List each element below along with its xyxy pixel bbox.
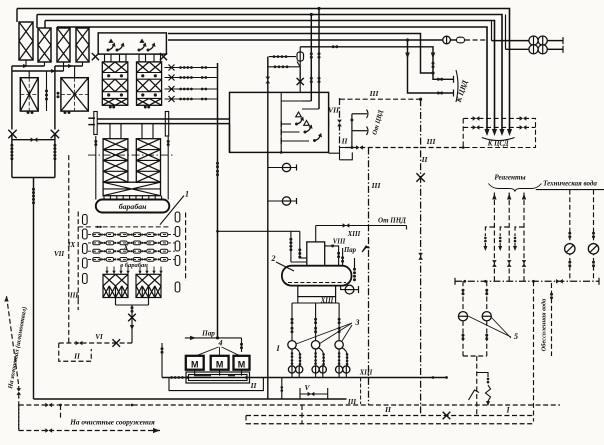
wire left down leg: [11, 66, 13, 130]
wire second down leg: [54, 66, 56, 130]
right dashed vertical internals: [185, 213, 187, 282]
Ot CVD stub upper: [352, 113, 367, 115]
deaerator head column: [307, 242, 325, 266]
wire deaerator feed vertical 2: [290, 231, 292, 252]
svg-text:М: М: [216, 360, 224, 370]
Ot CVD riser: [351, 114, 353, 148]
hook feed stubs: [281, 123, 291, 125]
tech water dashed lines with pumps: [569, 190, 571, 282]
junction on box bottom: [462, 146, 465, 149]
wire after circles row2: [547, 48, 563, 50]
phosphate dosing pumps group: [462, 281, 464, 311]
svg-text:II: II: [73, 352, 81, 361]
wire deaerator feed vertical 1: [299, 231, 301, 250]
economizer bottom wide row: [103, 182, 160, 196]
dashed line to K CSD box: [345, 147, 463, 149]
drain box right side with dots: [54, 134, 56, 178]
X valve bottom: [443, 412, 451, 420]
line III dash-dot long vertical: [368, 148, 370, 406]
pump suction with dots: [338, 303, 340, 341]
pointer 1 line: [160, 196, 184, 225]
filter outlet U pipes: [195, 370, 242, 376]
wire cross link with bowtie: [12, 139, 55, 141]
spray nozzles in left box: [108, 46, 114, 51]
deaerator tank 2: [282, 266, 352, 286]
node header junctions: [317, 7, 320, 10]
X valve on riser x300: [297, 78, 304, 85]
dashed line III upper horizontal: [340, 98, 421, 100]
arrow header drops into K CSD box: [484, 129, 489, 136]
tank right drain with zigzag dots: [354, 258, 356, 268]
spray hooks in center box: [297, 120, 303, 125]
svg-text:К ЦСД: К ЦСД: [487, 141, 509, 148]
boiler centerline dash-dot: [88, 154, 175, 156]
X valve on line II right: [416, 173, 424, 181]
riser x311 from header: [310, 15, 312, 102]
line VI with valves: [59, 342, 132, 344]
dashed links in internals: [78, 226, 92, 228]
wire panel connectors lower: [12, 70, 64, 72]
svg-text:На очистные сооружения: На очистные сооружения: [69, 418, 155, 427]
svg-text:Пар: Пар: [343, 247, 357, 254]
svg-text:III: III: [369, 89, 380, 98]
tank bottom compartment: [298, 286, 336, 297]
bottom solid collector: [34, 398, 347, 400]
K CSD inner dashed line: [463, 126, 535, 128]
wire header left risers: [16, 9, 18, 23]
drain down line with dots: [33, 178, 35, 400]
flow orifice circle: [443, 36, 451, 44]
valve dots on K CVD branches: [437, 78, 440, 81]
bowtie on line II right lower: [418, 253, 423, 260]
long center vertical x268 through box: [267, 92, 269, 399]
attemperator center box: [230, 92, 329, 152]
wire line VI to K CVD lower: [168, 40, 454, 93]
drop with dots to blowdown line: [281, 378, 283, 400]
line II dash-dot vertical: [339, 98, 341, 148]
wire feed line to orifice: [408, 39, 444, 41]
feed pump circle: [288, 341, 296, 349]
economizer lower column 1: [103, 139, 128, 183]
booster pump pair: [312, 366, 319, 373]
drum riser ticks: [103, 196, 105, 200]
bottom dashed line II: [246, 415, 534, 417]
lower loop line: [169, 378, 263, 391]
svg-text:III: III: [69, 292, 78, 300]
water wall panel 3: [57, 28, 70, 62]
brace K CSD: [482, 138, 515, 141]
bottom junction dot: [280, 151, 283, 154]
steam line with arrow: [185, 337, 242, 339]
svg-text:3: 3: [355, 318, 360, 327]
branch to deaerator feed: [218, 230, 300, 232]
reagent branch hook: [500, 227, 509, 236]
bottom dashed collector 1: [19, 404, 560, 406]
svg-text:X: X: [122, 243, 129, 252]
reagent branch hook: [515, 227, 524, 236]
svg-text:III: III: [371, 181, 382, 190]
dots between capsules rows: [101, 234, 103, 236]
side downcomer left: [95, 136, 97, 200]
feed pump circle: [311, 341, 319, 349]
collector dots: [216, 162, 219, 165]
svg-text:II: II: [250, 381, 258, 390]
wire pipe drop to spray box bottom: [229, 124, 231, 153]
down arrows to cyclones: [106, 267, 108, 274]
turbine circles row 1: [529, 36, 538, 45]
svg-text:III: III: [426, 137, 437, 146]
pump suction with dots: [291, 303, 293, 341]
line II dash-dot vertical right: [420, 99, 422, 415]
water wall panel 2: [38, 28, 51, 62]
row connector dashed lines: [88, 234, 175, 236]
inner vertical left: [280, 92, 282, 152]
Ot CVD stub lower: [352, 130, 367, 132]
wire restrictor stub upper: [268, 167, 297, 169]
steam inlet Par vertical: [342, 248, 344, 266]
bowties in K CSD box: [473, 116, 480, 121]
drain rows upper with dots and pot: [269, 56, 296, 58]
wire right panel connectors: [55, 65, 83, 67]
svg-text:5: 5: [514, 332, 518, 341]
svg-text:М: М: [191, 360, 199, 370]
capsule rows: [93, 233, 101, 237]
pump suction with dots: [315, 303, 317, 341]
right drop with X valve: [299, 67, 301, 79]
nested dashed corners bottom right: [245, 416, 247, 424]
discharge collector line: [162, 377, 447, 379]
wire steam header line 3: [45, 21, 495, 132]
wire to HP turbine row 2: [506, 48, 530, 50]
pump discharge branches: [338, 349, 340, 366]
reagent dashed feed lines: [493, 193, 495, 282]
riser x319 from header: [318, 9, 320, 110]
bowtie on right collector: [556, 279, 563, 284]
feed water pipe double line: [88, 117, 95, 119]
capsule column left: [83, 215, 88, 225]
svg-text:барабан: барабан: [119, 202, 147, 211]
drain funnel flag: [469, 390, 480, 400]
collector vertical x217: [217, 63, 219, 338]
feed pipe flange 2: [165, 112, 168, 137]
restrictor circle upper: [282, 163, 290, 171]
svg-text:II: II: [421, 155, 429, 164]
economizer lower column 2: [136, 139, 160, 183]
svg-text:II: II: [384, 405, 392, 414]
overflow pump: [345, 285, 354, 294]
X valve at right box corner: [160, 53, 167, 60]
svg-text:VIII: VIII: [333, 239, 346, 246]
air heater block right: [61, 78, 88, 111]
svg-text:4: 4: [218, 339, 223, 348]
valve dots between heaters: [46, 71, 48, 111]
svg-text:IX: IX: [67, 241, 76, 249]
sample flag: [362, 246, 370, 252]
dots under heater blocks: [27, 111, 30, 114]
capsule column right: [175, 212, 180, 222]
booster pump pair: [288, 366, 295, 373]
tube stubs top: [105, 54, 112, 62]
drain rows with dots to collector: [165, 67, 218, 69]
svg-text:Техническая вода: Техническая вода: [543, 180, 597, 188]
side downcomer right: [167, 136, 169, 200]
pump discharge branches: [291, 349, 293, 366]
stub ticks on inner vertical: [280, 121, 282, 127]
riser dots: [310, 52, 313, 55]
feed pipe flange 1: [94, 112, 97, 135]
drain tray double rect: [186, 372, 250, 383]
dots under superheater: [109, 106, 112, 109]
heater top feeds: [28, 71, 30, 78]
zolootval dashed line with valve: [18, 386, 20, 431]
svg-text:XIII: XIII: [359, 370, 373, 377]
svg-text:VI: VI: [95, 333, 103, 341]
underline tech voda: [536, 189, 604, 191]
wire attemperator line to riser x433: [300, 47, 433, 73]
wire after circles row1: [547, 40, 563, 42]
X valve at left box corner: [92, 53, 99, 60]
turbine circles row 2: [529, 45, 538, 54]
bowtie on II: [337, 120, 342, 127]
water wall panel 4: [76, 28, 89, 62]
tank overflow to pump circle: [341, 286, 345, 290]
svg-text:Пар: Пар: [201, 330, 215, 338]
branch to drain funnel: [477, 373, 488, 378]
bottom dashed return: [246, 423, 534, 425]
joined suction: [463, 355, 487, 357]
left drop with bowtie valve: [267, 57, 269, 93]
vertical dashes bottom left: [18, 405, 20, 431]
bottom dashed collector 2: [19, 430, 160, 432]
M filter box 1: [186, 356, 204, 370]
slant connector: [297, 62, 300, 67]
svg-text:VII: VII: [54, 250, 64, 258]
demin water dashed vertical 1: [533, 281, 535, 421]
bracket K CVD: [456, 70, 458, 102]
water wall panel 1: [19, 22, 33, 60]
wire steam header line 4: [57, 27, 487, 131]
orifice capsule: [457, 37, 465, 43]
M filter box 3: [234, 356, 250, 370]
steam line riser into box x300: [299, 47, 301, 93]
superheater upper column 1: [102, 62, 128, 105]
svg-text:в барабан: в барабан: [120, 262, 148, 269]
wire steam header line 2: [37, 15, 502, 132]
left inlet with dots: [161, 343, 163, 378]
small box at line II bottom: [329, 148, 355, 160]
blowoff X valve right: [51, 130, 59, 138]
brace Reagenty: [488, 184, 541, 192]
blowoff X valve left: [8, 130, 16, 138]
wire to HP turbine row 1: [492, 40, 530, 42]
svg-text:Обессоленная вода: Обессоленная вода: [541, 298, 548, 351]
svg-text:1: 1: [185, 190, 189, 199]
bowtie on dashed line: [356, 145, 363, 150]
svg-text:От ПНД: От ПНД: [378, 217, 406, 225]
wire panel connectors upper: [12, 65, 45, 67]
K CSD dashed box: [463, 118, 535, 147]
cyclone left box: [103, 274, 128, 297]
head right outlet: [325, 246, 339, 266]
drum: [96, 200, 170, 213]
line Ot PND with bowtie: [316, 225, 407, 227]
pump suction headers: [298, 297, 336, 303]
feed pump circle: [335, 341, 343, 349]
wire dashed to header: [465, 39, 487, 41]
II drain box dashed: [59, 343, 92, 361]
drain row lower with dots: [268, 66, 300, 68]
wire restrictor stub lower: [268, 200, 297, 202]
svg-text:VII: VII: [328, 106, 340, 115]
svg-text:XIII: XIII: [347, 231, 361, 238]
vertical to zolootval: [33, 398, 35, 400]
dashed boundary left of internals: [77, 212, 79, 300]
svg-text:III: III: [347, 398, 356, 406]
attemperator box left: [98, 33, 166, 54]
restrictor circle lower: [282, 197, 290, 205]
air heater block left: [20, 78, 38, 111]
deaerator head riser: [315, 226, 317, 242]
booster pump pair: [336, 366, 343, 373]
zolootval slanted dashed exit: [7, 296, 19, 384]
cyclone right box: [136, 274, 161, 297]
wire line V to K CVD: [168, 34, 454, 80]
superheater upper column 2: [137, 62, 162, 105]
svg-text:М: М: [238, 360, 246, 370]
pump discharge branches: [315, 349, 317, 366]
svg-text:II: II: [341, 137, 349, 146]
riser stubs to rows: [491, 21, 493, 41]
drain box bottom: [12, 177, 55, 179]
drain box left side with dots: [11, 134, 13, 178]
stub pipes between pipe and economizer: [109, 124, 111, 139]
svg-text:Реагенты: Реагенты: [494, 174, 525, 182]
wire steam header line 1: [17, 9, 510, 132]
box right edge tick: [328, 119, 330, 127]
zigzag drain seal: [486, 385, 491, 401]
X valve on cyclone drain: [128, 314, 136, 322]
dashed verticals internals: [68, 155, 70, 343]
tank internal dashed line: [288, 282, 346, 284]
demin water dashed vertical 2: [551, 283, 553, 356]
cyclone drain: [116, 298, 149, 306]
reagent branch hook: [485, 227, 494, 236]
svg-text:2: 2: [271, 254, 276, 263]
condensate pot: [297, 52, 304, 61]
M filter box 2: [211, 356, 229, 370]
bottom dash-dot collector right: [455, 280, 599, 282]
